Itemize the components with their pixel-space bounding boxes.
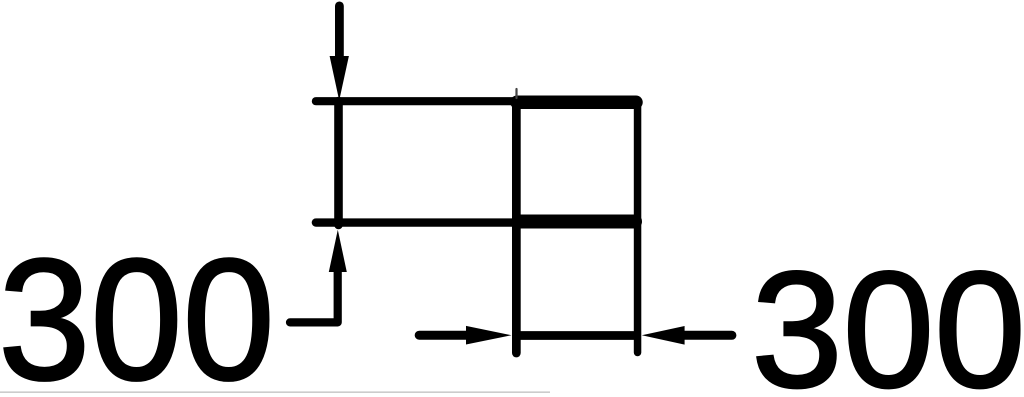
top dimension arrow shaft (335, 6, 344, 56)
lower square bottom edge (520, 331, 637, 340)
top dimension arrowhead (down) (330, 56, 349, 101)
square top edge (thick, overlaps) (517, 96, 636, 110)
bottom-left arrowhead (right) (466, 326, 512, 345)
bottom-right arrowhead (left) (642, 326, 685, 345)
svg-text:300: 300 (751, 238, 1024, 397)
bottom-right dimension shaft (680, 331, 732, 340)
middle vertical thin tick above top line (515, 89, 517, 98)
left vertical line (334, 101, 343, 225)
square middle edge (thick, overlaps) (519, 215, 635, 229)
faint paper edge line bottom (0, 391, 550, 393)
up dimension arrowhead (329, 230, 347, 272)
extension line second horizontal (316, 218, 638, 226)
bottom-left dimension shaft (419, 331, 470, 340)
middle vertical line (512, 100, 521, 353)
svg-text:300: 300 (0, 223, 275, 397)
right vertical line (634, 101, 642, 353)
extension line top horizontal (316, 97, 638, 105)
leader shaft with elbow to left 300 (290, 268, 338, 322)
